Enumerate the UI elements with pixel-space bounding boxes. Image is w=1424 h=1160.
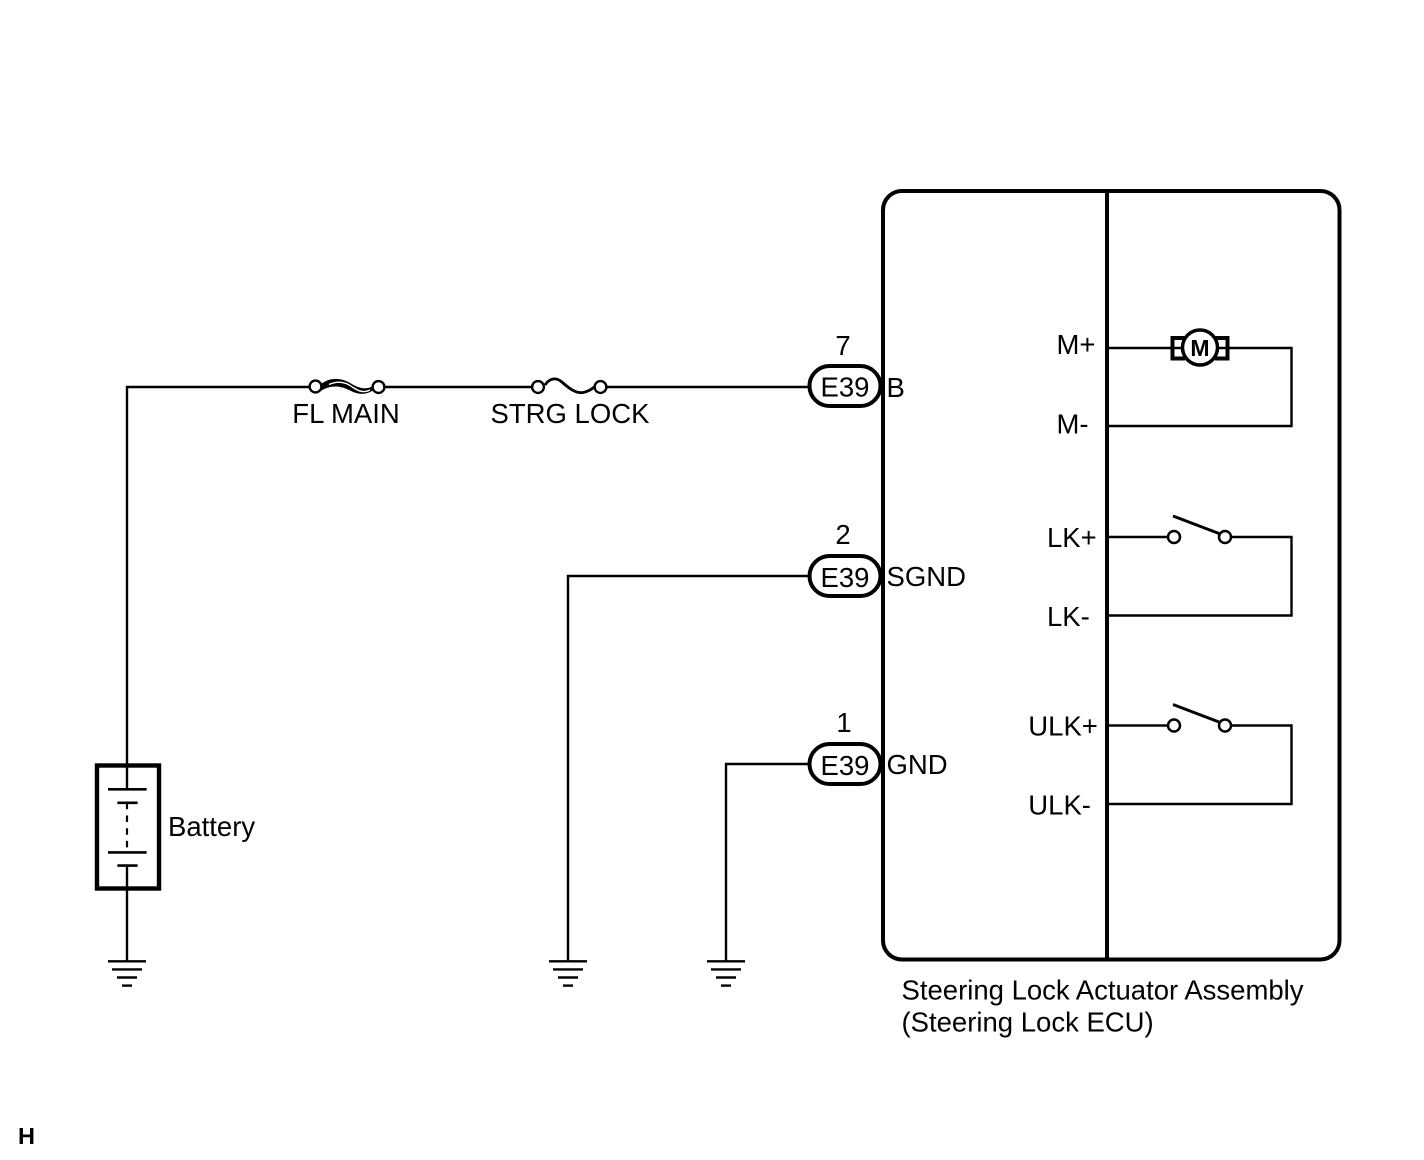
svg-text:FL MAIN: FL MAIN [292, 398, 399, 429]
svg-text:ULK-: ULK- [1028, 789, 1091, 820]
wire unlock switch loop ULK+ / ULK- [1109, 724, 1168, 726]
ground for SGND [549, 961, 587, 985]
svg-text:1: 1 [836, 707, 851, 738]
wire lock switch loop LK+ / LK- [1109, 536, 1168, 538]
wire battery feed: vertical from battery up and along top to fuse [127, 387, 309, 790]
svg-text:E39: E39 [821, 750, 870, 781]
svg-text:ULK+: ULK+ [1028, 710, 1098, 741]
wire motor loop M+ / M- [1109, 348, 1292, 426]
svg-text:GND: GND [887, 749, 948, 780]
wire GND to ground [726, 764, 809, 961]
svg-text:LK-: LK- [1047, 601, 1090, 632]
svg-text:E39: E39 [821, 562, 870, 593]
fusible link FL MAIN [310, 379, 385, 394]
switch LK (lock position switch) [1168, 516, 1231, 543]
fuse STRG LOCK [532, 379, 606, 393]
switch ULK (unlock position switch) [1168, 705, 1231, 732]
svg-text:LK+: LK+ [1047, 522, 1097, 553]
svg-text:(Steering Lock ECU): (Steering Lock ECU) [902, 1007, 1154, 1038]
svg-text:7: 7 [835, 330, 850, 361]
wire from STRG LOCK to connector E39 pin 7 [600, 386, 809, 388]
svg-text:B: B [887, 372, 905, 403]
wire between FL MAIN and STRG LOCK [378, 386, 539, 388]
ground below battery [108, 961, 146, 985]
svg-text:M+: M+ [1057, 329, 1096, 360]
svg-text:STRG LOCK: STRG LOCK [491, 398, 651, 429]
svg-text:Battery: Battery [168, 811, 255, 842]
connector E39 pin 7 [810, 366, 881, 406]
svg-text:E39: E39 [821, 372, 870, 403]
motor M [1173, 330, 1228, 365]
battery B1 [97, 766, 159, 962]
svg-text:SGND: SGND [887, 561, 966, 592]
ground for GND [707, 961, 745, 985]
svg-text:Steering Lock Actuator Assembl: Steering Lock Actuator Assembly [902, 975, 1304, 1006]
ECU box Steering Lock Actuator Assembly [883, 191, 1340, 960]
connector E39 pin 1 [810, 744, 881, 784]
svg-text:H: H [18, 1123, 35, 1149]
wire SGND to ground [568, 576, 809, 961]
ECU internal divider [1105, 193, 1109, 958]
svg-text:2: 2 [835, 519, 850, 550]
connector E39 pin 2 [810, 556, 881, 596]
svg-text:M-: M- [1057, 409, 1089, 440]
svg-text:M: M [1190, 335, 1209, 361]
